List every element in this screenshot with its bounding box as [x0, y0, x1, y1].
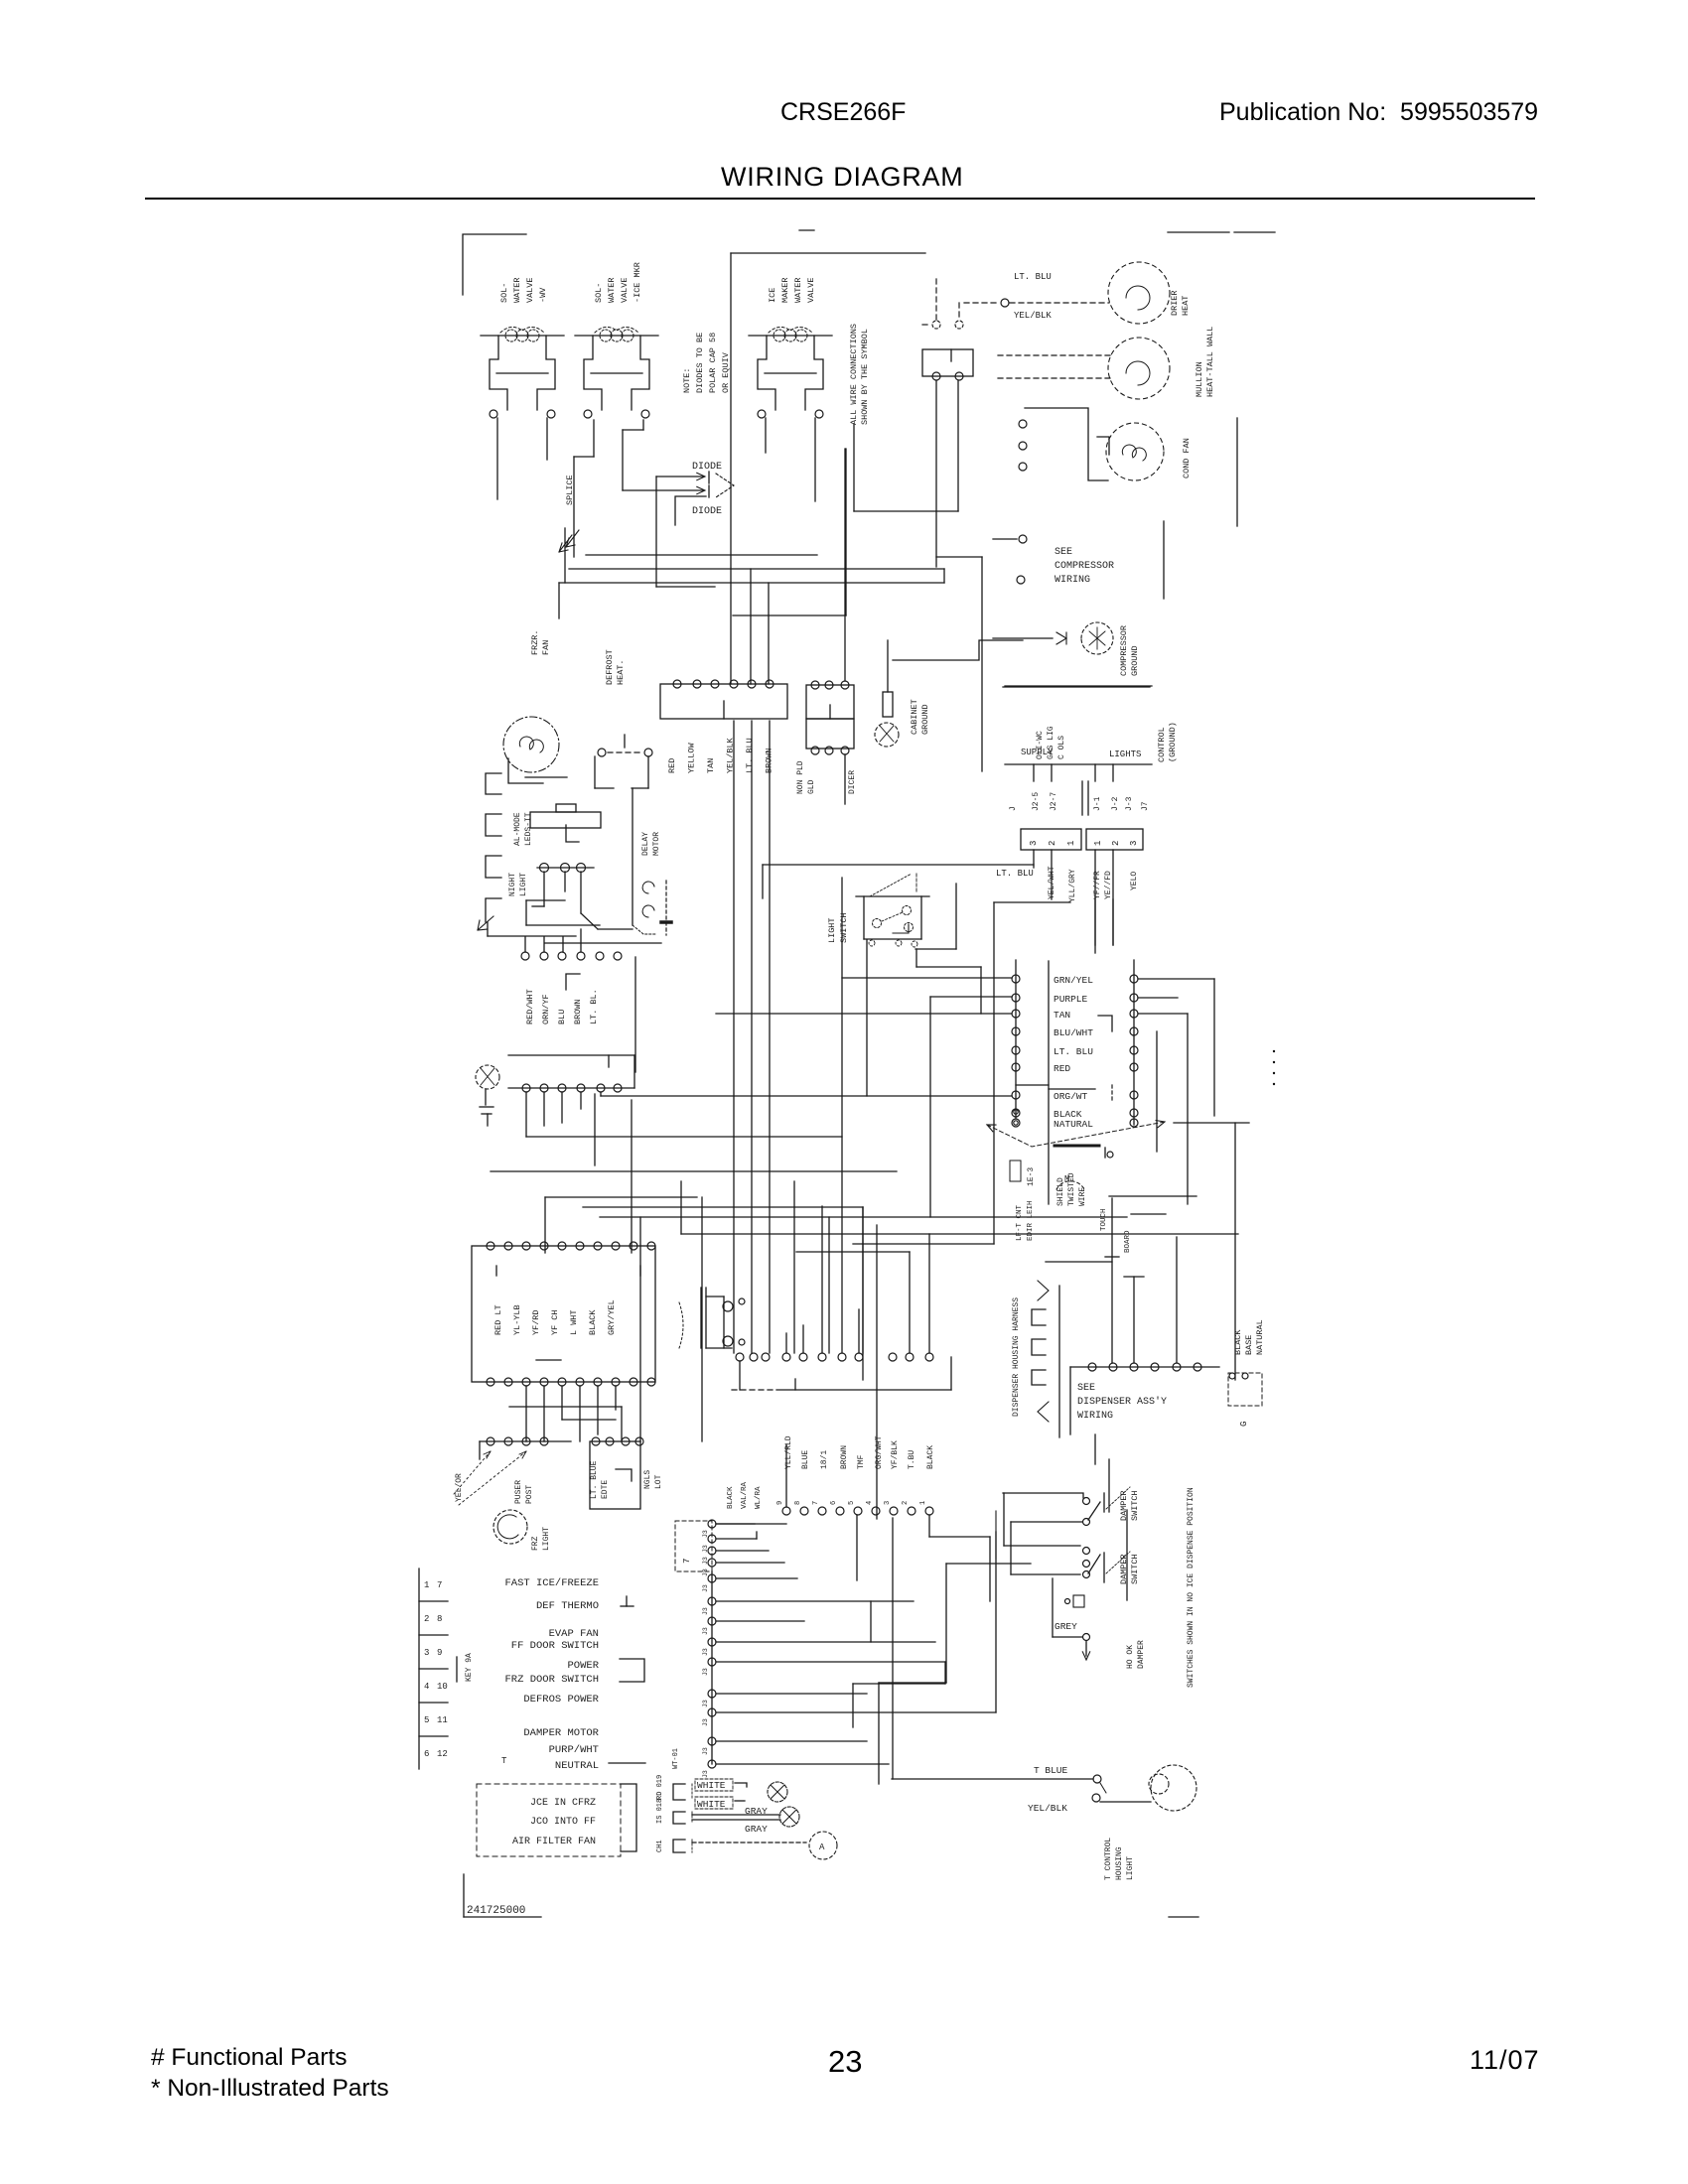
svg-text:GLD: GLD [807, 779, 816, 794]
svg-text:T.BU: T.BU [908, 1450, 916, 1469]
svg-text:NOTE:: NOTE: [682, 367, 692, 393]
svg-text:NATURAL: NATURAL [1255, 1319, 1265, 1355]
svg-text:T CONTROL: T CONTROL [1104, 1838, 1113, 1880]
svg-text:LIGHT: LIGHT [1126, 1856, 1135, 1880]
svg-text:BROWN: BROWN [573, 999, 583, 1024]
svg-text:(GROUND): (GROUND) [1168, 722, 1178, 762]
svg-text:NEUTRAL: NEUTRAL [555, 1760, 599, 1772]
svg-text:SOL-: SOL- [594, 283, 604, 303]
svg-text:YF/RD: YF/RD [531, 1309, 541, 1335]
svg-text:WIRING: WIRING [1077, 1411, 1113, 1422]
svg-text:POLAR CAP 58: POLAR CAP 58 [708, 333, 718, 393]
svg-text:DEF THERMO: DEF THERMO [536, 1600, 599, 1612]
svg-text:DEFROST: DEFROST [605, 649, 615, 685]
svg-text:COND FAN: COND FAN [1182, 438, 1192, 478]
svg-text:GAS LIG: GAS LIG [1047, 726, 1055, 759]
svg-text:COMPRESSOR: COMPRESSOR [1055, 561, 1114, 572]
svg-text:SPLICE: SPLICE [565, 475, 575, 505]
svg-text:YL-YLB: YL-YLB [512, 1304, 522, 1335]
svg-text:CABINET: CABINET [910, 699, 919, 735]
svg-text:A: A [819, 1843, 825, 1852]
svg-text:YF CH: YF CH [550, 1309, 560, 1335]
svg-text:2: 2 [902, 1501, 910, 1505]
svg-text:18/1: 18/1 [820, 1450, 829, 1469]
svg-text:SWITCHES SHOWN IN NO ICE DISPE: SWITCHES SHOWN IN NO ICE DISPENSE POSITI… [1187, 1487, 1196, 1688]
svg-text:KEY 9A: KEY 9A [465, 1653, 474, 1682]
svg-text:DIODE: DIODE [692, 506, 722, 517]
svg-text:RED/WHT: RED/WHT [525, 989, 535, 1024]
svg-text:NGLS: NGLS [643, 1470, 652, 1489]
svg-text:EDTE: EDTE [601, 1480, 610, 1499]
svg-text:WL/RA: WL/RA [755, 1486, 763, 1509]
svg-text:6: 6 [830, 1501, 838, 1505]
svg-text:J3: J3 [702, 1648, 709, 1656]
svg-text:10: 10 [437, 1682, 448, 1692]
svg-text:DISPENSER ASS'Y: DISPENSER ASS'Y [1077, 1396, 1167, 1408]
svg-text:HO OK: HO OK [1126, 1645, 1135, 1669]
svg-text:WIRING: WIRING [1055, 575, 1090, 586]
svg-text:GRY/YEL: GRY/YEL [607, 1299, 617, 1335]
svg-text:YELO: YELO [1130, 872, 1139, 890]
svg-text:BASE: BASE [1244, 1335, 1254, 1355]
svg-text:YF//FR: YF//FR [1093, 871, 1102, 899]
svg-text:POWER: POWER [567, 1660, 599, 1672]
svg-text:G: G [1239, 1422, 1249, 1427]
svg-text:-WV: -WV [538, 287, 548, 303]
svg-text:J3: J3 [702, 1569, 709, 1576]
svg-text:7: 7 [812, 1501, 820, 1505]
svg-text:YE//FD: YE//FD [1104, 871, 1113, 899]
svg-text:NIGHT: NIGHT [508, 873, 517, 896]
svg-text:GRAY: GRAY [745, 1824, 768, 1835]
svg-text:YF/BLK: YF/BLK [891, 1440, 900, 1469]
svg-text:NON PLD: NON PLD [796, 760, 805, 794]
svg-text:FAN: FAN [541, 640, 551, 655]
svg-text:J3: J3 [702, 1668, 709, 1676]
svg-text:3: 3 [1029, 841, 1039, 846]
svg-text:WIRE: WIRE [1078, 1187, 1087, 1206]
svg-text:BROWN: BROWN [840, 1445, 849, 1469]
svg-text:5: 5 [424, 1715, 429, 1725]
svg-text:SWITCH: SWITCH [1130, 1554, 1140, 1584]
svg-text:BLACK: BLACK [926, 1445, 935, 1469]
svg-text:EVAP FAN: EVAP FAN [549, 1628, 599, 1640]
svg-text:COMPRESSOR: COMPRESSOR [1119, 625, 1129, 676]
svg-text:PURPLE: PURPLE [1054, 994, 1088, 1005]
svg-text:BLU: BLU [557, 1010, 567, 1024]
svg-text:-ICE MKR: -ICE MKR [633, 262, 642, 303]
svg-text:SWITCH: SWITCH [839, 912, 849, 943]
svg-text:LF-T CNT: LF-T CNT [1016, 1204, 1024, 1241]
svg-text:LOT: LOT [654, 1474, 663, 1489]
svg-text:11: 11 [437, 1715, 448, 1725]
svg-text:1: 1 [919, 1501, 927, 1505]
svg-text:WATER: WATER [607, 277, 617, 303]
svg-text:YEL/WHT: YEL/WHT [1048, 866, 1056, 899]
svg-text:DIODE: DIODE [692, 462, 722, 473]
svg-text:YLL/GRY: YLL/GRY [1068, 869, 1077, 902]
svg-text:LT. BLU: LT. BLU [1014, 272, 1052, 282]
svg-text:SHIELD: SHIELD [1056, 1177, 1065, 1206]
svg-text:8: 8 [437, 1614, 442, 1624]
svg-text:J2-7: J2-7 [1050, 792, 1058, 811]
svg-text:JCE IN CFRZ: JCE IN CFRZ [530, 1798, 596, 1809]
svg-text:1E-3: 1E-3 [1027, 1167, 1036, 1186]
svg-text:POST: POST [525, 1485, 534, 1504]
svg-text:YEL/OR: YEL/OR [455, 1473, 464, 1502]
svg-text:LT. BLU: LT. BLU [745, 738, 755, 773]
svg-text:1: 1 [1066, 841, 1076, 846]
svg-text:TOUCH: TOUCH [1100, 1208, 1108, 1231]
svg-text:1: 1 [424, 1580, 429, 1590]
svg-text:RD 019: RD 019 [656, 1775, 664, 1800]
svg-text:PURP/WHT: PURP/WHT [549, 1744, 599, 1756]
svg-text:J3: J3 [702, 1700, 709, 1707]
svg-text:BOARD: BOARD [1124, 1230, 1132, 1253]
svg-text:GRN/YEL: GRN/YEL [1054, 975, 1093, 986]
svg-text:DICER: DICER [848, 770, 857, 794]
svg-text:BLACK: BLACK [1233, 1329, 1243, 1355]
svg-text:CH1: CH1 [656, 1840, 664, 1852]
svg-text:YELLOW: YELLOW [687, 742, 697, 773]
svg-text:LT. BLUE: LT. BLUE [590, 1460, 599, 1499]
svg-text:LIGHTS: LIGHTS [1109, 750, 1141, 759]
svg-text:7: 7 [682, 1559, 692, 1564]
svg-text:9: 9 [437, 1648, 442, 1658]
svg-text:DIODES TO BE: DIODES TO BE [695, 333, 705, 393]
svg-text:WATER: WATER [793, 277, 803, 303]
svg-text:J-3: J-3 [1125, 796, 1134, 811]
svg-text:RED: RED [1054, 1063, 1070, 1074]
svg-text:5: 5 [848, 1501, 856, 1505]
svg-text:12: 12 [437, 1749, 448, 1759]
svg-text:LT. BLU: LT. BLU [996, 869, 1034, 879]
svg-text:PUSER: PUSER [514, 1480, 523, 1504]
svg-text:T: T [501, 1756, 507, 1766]
svg-text:DISPENSER HOUSING HARNESS: DISPENSER HOUSING HARNESS [1012, 1297, 1021, 1417]
svg-text:J-1: J-1 [1093, 796, 1102, 811]
svg-text:FAST ICE/FREEZE: FAST ICE/FREEZE [504, 1577, 599, 1589]
svg-text:TAN: TAN [1054, 1010, 1070, 1021]
svg-text:ICE: ICE [768, 288, 777, 303]
svg-text:J-2: J-2 [1111, 796, 1120, 811]
svg-text:NATURAL: NATURAL [1054, 1119, 1093, 1130]
svg-text:OR EQUIV: OR EQUIV [721, 351, 731, 393]
svg-text:FRZR.: FRZR. [530, 629, 540, 655]
svg-text:FF DOOR SWITCH: FF DOOR SWITCH [511, 1640, 599, 1652]
svg-text:DAMPER: DAMPER [1119, 1490, 1129, 1521]
svg-text:DAMPER: DAMPER [1119, 1554, 1129, 1584]
svg-text:ORG/WHT: ORG/WHT [875, 1435, 884, 1469]
svg-text:J: J [1009, 806, 1018, 811]
svg-text:VALVE: VALVE [620, 277, 630, 303]
svg-text:LIGHT: LIGHT [827, 917, 837, 943]
svg-text:J3: J3 [702, 1530, 709, 1538]
svg-text:3: 3 [884, 1501, 892, 1505]
svg-text:4: 4 [866, 1501, 874, 1505]
svg-text:GROUND: GROUND [1130, 645, 1140, 676]
svg-text:9: 9 [776, 1501, 784, 1505]
svg-text:OLI-WC: OLI-WC [1036, 731, 1045, 759]
svg-text:LIGHT: LIGHT [519, 873, 528, 896]
svg-text:EDIR LEIH: EDIR LEIH [1027, 1200, 1035, 1241]
svg-text:AL-MODE: AL-MODE [513, 812, 522, 846]
svg-text:HEAT-TALL WALL: HEAT-TALL WALL [1205, 327, 1215, 397]
svg-text:CONTROL: CONTROL [1157, 727, 1167, 762]
svg-text:WHITE: WHITE [697, 1799, 726, 1810]
svg-text:LIGHT: LIGHT [542, 1527, 551, 1551]
svg-text:DAMPER MOTOR: DAMPER MOTOR [523, 1727, 599, 1739]
svg-text:LT. BL.: LT. BL. [589, 989, 599, 1024]
svg-text:J3: J3 [702, 1770, 709, 1778]
svg-text:DELAY: DELAY [641, 832, 650, 856]
svg-text:J3: J3 [702, 1607, 709, 1615]
svg-text:2: 2 [1111, 841, 1121, 846]
svg-text:2: 2 [1048, 841, 1057, 846]
svg-text:BLU/WHT: BLU/WHT [1054, 1027, 1093, 1038]
svg-text:SWITCH: SWITCH [1130, 1490, 1140, 1521]
svg-text:WHITE: WHITE [697, 1780, 726, 1791]
svg-text:SOL-: SOL- [499, 283, 509, 303]
svg-text:SEE: SEE [1077, 1383, 1095, 1394]
svg-text:TMF: TMF [857, 1454, 866, 1469]
svg-text:ORN/YF: ORN/YF [541, 994, 551, 1024]
svg-text:BLACK: BLACK [727, 1486, 735, 1509]
svg-text:RED LT: RED LT [493, 1304, 503, 1335]
svg-text:J3: J3 [702, 1747, 709, 1755]
svg-text:LT. BLU: LT. BLU [1054, 1046, 1093, 1057]
svg-text:IS 018: IS 018 [656, 1799, 664, 1824]
svg-text:DEFROS POWER: DEFROS POWER [523, 1694, 599, 1706]
svg-text:8: 8 [794, 1501, 802, 1505]
svg-text:JCO INTO FF: JCO INTO FF [530, 1817, 596, 1828]
svg-text:TAN: TAN [706, 758, 716, 773]
svg-text:VAL/RA: VAL/RA [741, 1481, 749, 1509]
svg-text:BLACK: BLACK [588, 1309, 598, 1335]
svg-text:HOUSING: HOUSING [1115, 1846, 1124, 1880]
svg-text:L WHT: L WHT [569, 1309, 579, 1335]
svg-text:VALVE: VALVE [806, 277, 816, 303]
svg-text:DRIER: DRIER [1170, 290, 1180, 316]
svg-text:AIR FILTER FAN: AIR FILTER FAN [512, 1837, 596, 1847]
svg-text:J2-5: J2-5 [1032, 792, 1041, 811]
svg-text:J7: J7 [1141, 801, 1150, 811]
svg-text:GREY: GREY [1055, 1621, 1077, 1632]
svg-text:HEAT: HEAT [1181, 296, 1191, 316]
svg-text:DAMPER: DAMPER [1137, 1640, 1146, 1669]
svg-text:C OLS: C OLS [1057, 736, 1066, 759]
svg-text:T BLUE: T BLUE [1034, 1765, 1068, 1776]
svg-text:MOTOR: MOTOR [652, 832, 661, 856]
svg-text:J3: J3 [702, 1627, 709, 1635]
svg-text:FRZ: FRZ [531, 1536, 540, 1551]
svg-text:LEDS-IT: LEDS-IT [524, 812, 533, 846]
svg-text:VALVE: VALVE [525, 277, 535, 303]
svg-text:GROUND: GROUND [920, 704, 930, 735]
svg-text:241725000: 241725000 [467, 1905, 525, 1917]
svg-text:7: 7 [437, 1580, 442, 1590]
svg-text:MULLION: MULLION [1195, 361, 1204, 397]
svg-text:3: 3 [1129, 841, 1139, 846]
svg-text:SEE: SEE [1055, 547, 1072, 558]
svg-text:YEL/BLK: YEL/BLK [1014, 311, 1052, 321]
svg-text:ALL WIRE CONNECTIONS: ALL WIRE CONNECTIONS [849, 324, 859, 425]
svg-text:1: 1 [1093, 841, 1103, 846]
svg-text:6: 6 [424, 1749, 429, 1759]
svg-text:J3: J3 [702, 1718, 709, 1726]
svg-text:ORG/WT: ORG/WT [1054, 1091, 1088, 1102]
svg-text:BLUE: BLUE [801, 1450, 810, 1469]
svg-text:2: 2 [424, 1614, 429, 1624]
svg-text:J3: J3 [702, 1584, 709, 1592]
svg-text:WATER: WATER [512, 277, 522, 303]
svg-text:YEL/BLK: YEL/BLK [1028, 1803, 1067, 1814]
svg-text:4: 4 [424, 1682, 429, 1692]
svg-text:3: 3 [424, 1648, 429, 1658]
svg-text:TWISTED: TWISTED [1067, 1172, 1076, 1206]
svg-text:HEAT.: HEAT. [616, 659, 626, 685]
svg-text:WT-01: WT-01 [672, 1748, 680, 1769]
svg-text:RED: RED [667, 758, 677, 773]
svg-text:FRZ DOOR SWITCH: FRZ DOOR SWITCH [504, 1674, 599, 1686]
svg-text:SHOWN BY THE SYMBOL: SHOWN BY THE SYMBOL [860, 329, 870, 425]
svg-text:MAKER: MAKER [780, 277, 790, 303]
